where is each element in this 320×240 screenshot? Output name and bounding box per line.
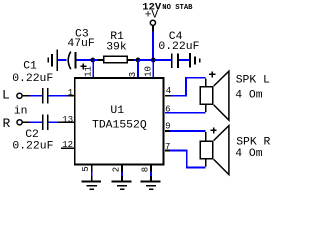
svg-text:SPK R: SPK R	[236, 136, 270, 148]
wire +V terminal to supply node C	[152, 26, 154, 60]
svg-text:NO STAB: NO STAB	[162, 4, 193, 12]
wire node C to C4	[155, 59, 171, 61]
svg-text:TDA1552Q: TDA1552Q	[92, 119, 147, 131]
wire node A to R1	[94, 59, 104, 61]
svg-text:U1: U1	[110, 105, 124, 117]
svg-text:4 Om: 4 Om	[235, 148, 263, 160]
wire pin 4 to SPK L top	[165, 77, 207, 97]
power terminal +V	[150, 20, 155, 25]
ground for C3 (sideways)	[47, 50, 58, 72]
capacitor C1	[42, 88, 49, 104]
svg-text:12: 12	[62, 140, 73, 150]
svg-text:8: 8	[140, 167, 150, 172]
svg-text:13: 13	[62, 115, 73, 125]
wire C3 to node A	[76, 59, 91, 61]
svg-text:L: L	[2, 88, 10, 103]
wire pin 7 to SPK R bottom	[165, 150, 207, 169]
ground for C4 (sideways)	[189, 53, 201, 68]
wire C3 ground to C3 negative plate	[58, 59, 66, 61]
svg-text:0.22uF: 0.22uF	[158, 41, 199, 53]
wire L terminal to C1	[22, 95, 41, 97]
plus sign of SPK R	[211, 127, 217, 133]
wire C2 to pin 13	[49, 122, 74, 124]
svg-text:47uF: 47uF	[67, 38, 95, 50]
wire node B to node C	[139, 59, 153, 61]
svg-text:4 Om: 4 Om	[235, 89, 263, 101]
svg-text:0.22uF: 0.22uF	[12, 140, 53, 152]
svg-text:2: 2	[112, 167, 122, 172]
wire R terminal to C2	[23, 122, 42, 124]
svg-text:10: 10	[144, 66, 154, 77]
pin 10 stub	[152, 60, 154, 78]
resistor R1	[104, 56, 127, 62]
svg-text:R: R	[3, 116, 11, 131]
svg-text:4: 4	[166, 86, 171, 96]
node C junction	[151, 58, 156, 63]
pin 12 stub	[61, 147, 74, 149]
terminal R	[17, 120, 22, 125]
pin 3 stub	[137, 60, 139, 78]
pin 2 stub	[121, 165, 123, 182]
svg-text:0.22uF: 0.22uF	[12, 73, 53, 85]
node B junction	[136, 58, 141, 63]
wire R1 to node B	[128, 59, 137, 61]
svg-text:C2: C2	[25, 129, 39, 141]
svg-text:9: 9	[165, 121, 170, 131]
svg-text:1: 1	[68, 88, 73, 98]
svg-text:39k: 39k	[106, 41, 127, 53]
wire pin 9 to SPK R top	[165, 130, 207, 140]
svg-text:3: 3	[128, 72, 138, 77]
svg-text:11: 11	[84, 66, 94, 77]
wire C4 to ground	[179, 59, 189, 61]
pin 5 stub	[91, 165, 93, 182]
terminal L	[17, 93, 22, 98]
pin 8 stub	[150, 165, 152, 182]
svg-text:+V: +V	[145, 10, 159, 22]
ground for pin 2	[112, 181, 132, 190]
speaker SPK L	[200, 71, 229, 120]
pin 11 stub	[92, 60, 94, 78]
node A junction	[90, 58, 95, 63]
svg-text:SPK L: SPK L	[236, 75, 270, 87]
svg-text:5: 5	[81, 166, 91, 171]
svg-text:in: in	[14, 105, 28, 117]
plus sign of C3	[80, 63, 86, 69]
ground for pin 5	[81, 181, 101, 190]
wire pin 6 to SPK L bottom	[165, 105, 207, 114]
plus sign of SPK L	[209, 71, 215, 77]
capacitor C4	[171, 54, 179, 69]
capacitor C3	[68, 52, 76, 70]
capacitor C2	[42, 115, 49, 131]
svg-text:C1: C1	[23, 60, 37, 72]
speaker SPK R	[200, 126, 229, 175]
ground for pin 8	[141, 181, 161, 190]
wire C1 to pin 1	[49, 95, 74, 97]
IC U1 TDA1552Q body	[75, 78, 164, 165]
